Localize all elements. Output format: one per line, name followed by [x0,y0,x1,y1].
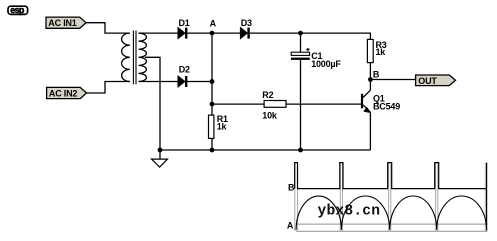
svg-text:R2: R2 [262,90,273,100]
node A [210,19,217,36]
svg-text:esp: esp [10,5,25,15]
waveform A-level gray line [297,223,488,225]
svg-text:A: A [287,221,294,231]
svg-text:BC549: BC549 [373,101,400,111]
wire secondary bottom to D2 [139,81,178,83]
svg-text:1000µF: 1000µF [311,59,341,69]
wire C1 bottom to ground rail [300,60,302,150]
resistor R2 [262,90,286,120]
wire D2 to node A column [187,81,212,83]
wire AC IN2 to transformer primary bottom [87,82,130,94]
junction center tap / ground rail [158,148,163,153]
diode D3 [240,18,252,38]
esp logo [8,5,28,15]
svg-text:A: A [210,19,217,29]
svg-text:B: B [288,183,295,193]
transformer T1 secondary winding [139,33,147,81]
transformer T1 primary winding [122,33,130,81]
connector OUT [416,75,456,86]
svg-text:ybx8.cn: ybx8.cn [318,203,381,219]
node B [368,69,380,82]
waveform trace A rectified arches [296,196,487,230]
waveform plot right edge [486,163,488,231]
waveform trace B with pulses [295,163,487,189]
svg-text:D1: D1 [179,18,190,28]
resistor R1 [209,114,228,138]
svg-text:D3: D3 [241,18,252,28]
diode D2 [178,65,190,87]
wire R3 bottom to node B [369,63,371,80]
svg-text:AC IN1: AC IN1 [48,18,76,28]
transformer T1 core [133,31,136,85]
svg-text:B: B [373,69,380,79]
wire D3 to C1 top node [250,32,301,34]
diode D1 [178,18,190,38]
wire D1 to node A [187,32,212,34]
svg-text:D2: D2 [179,65,190,75]
connector AC IN2 [47,87,87,98]
svg-text:AC IN2: AC IN2 [49,89,77,99]
wire node A column vertical [211,33,213,115]
wire positive rail to R3 [301,33,371,39]
svg-text:10k: 10k [262,110,278,120]
wire base row from node A column to R2 [212,103,264,105]
svg-text:1k: 1k [217,121,228,131]
waveform bottom gray line [296,230,488,232]
junction base row / node A column [210,102,215,107]
wire secondary top to D1 [139,32,178,34]
junction C1 top [298,31,303,36]
wire node B to OUT [370,79,415,81]
wire transformer center tap [145,57,160,150]
connector AC IN1 [46,17,86,28]
transistor Q1 [361,80,400,151]
resistor R3 [367,39,386,62]
junction D2 / node A column [210,79,215,84]
wire R1 bottom to ground rail [211,139,213,150]
capacitor C1 [291,33,341,69]
wire node A to D3 [212,32,240,34]
ground rail wire [160,149,370,151]
svg-text:1k: 1k [376,47,387,57]
junction C1 / ground rail [298,148,303,153]
waveform gray guide verticals [295,163,486,231]
junction R1 / ground rail [210,148,215,153]
svg-text:OUT: OUT [418,76,437,86]
wire AC IN1 to transformer primary top [86,23,130,33]
ground symbol [152,150,168,167]
wire R2 to Q1 base [286,103,362,105]
